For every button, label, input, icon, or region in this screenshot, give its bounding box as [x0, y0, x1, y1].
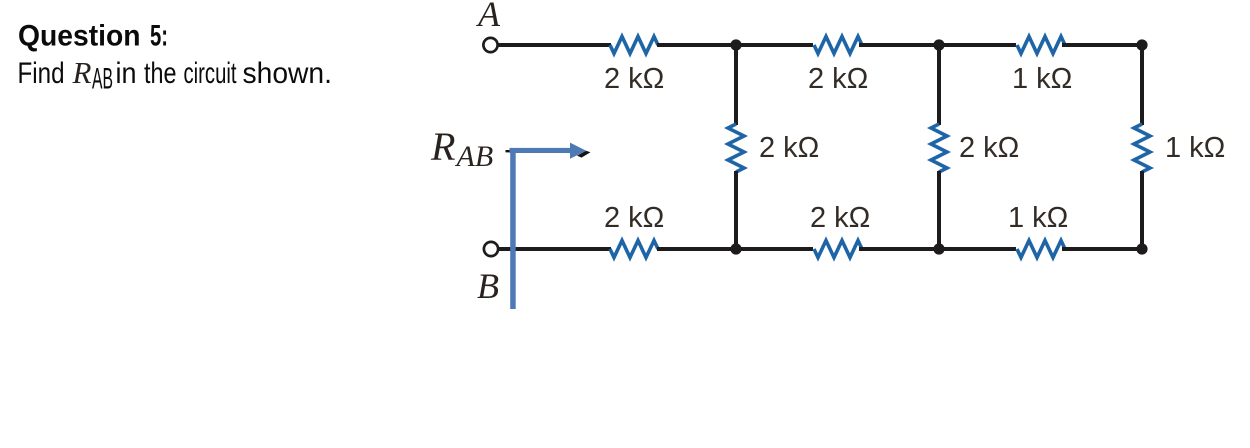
- wire: vertical branch 2 lower: [937, 171, 941, 249]
- arrow shadow line: [506, 150, 576, 152]
- svg-text:Question: Question: [18, 19, 141, 52]
- wire: top rail node2 span: [859, 43, 1016, 47]
- terminal A: [483, 38, 497, 52]
- prompt text "Find RAB in the circuit shown.": [18, 55, 333, 95]
- svg-text:2 kΩ: 2 kΩ: [959, 132, 1019, 164]
- junction node bottom-right corner: [1136, 243, 1147, 254]
- resistor 2k bottom-left: [610, 241, 658, 258]
- resistor 1k bottom-right: [1017, 241, 1065, 258]
- junction node bottom-2: [933, 243, 944, 254]
- wire: vertical branch 3 upper: [1140, 45, 1144, 125]
- svg-text:in: in: [116, 57, 137, 90]
- wire: vertical branch 2 upper: [937, 45, 941, 125]
- svg-text:2 kΩ: 2 kΩ: [759, 132, 819, 164]
- svg-text:1 kΩ: 1 kΩ: [1165, 132, 1225, 164]
- resistor 2k top-left: [610, 37, 658, 54]
- resistor 2k top-middle: [814, 37, 862, 54]
- svg-text:1 kΩ: 1 kΩ: [1012, 63, 1072, 95]
- wire: top rail from A to R1: [498, 43, 611, 47]
- svg-text:2 kΩ: 2 kΩ: [604, 63, 664, 95]
- junction node bottom-1: [730, 243, 741, 254]
- RAB arrow shaft: [510, 148, 572, 153]
- resistor 1k top-right: [1017, 37, 1065, 54]
- wire: top rail R1 to node1: [657, 43, 813, 47]
- wire: top rail to top-right corner: [1062, 43, 1142, 47]
- svg-text:2 kΩ: 2 kΩ: [810, 202, 870, 234]
- svg-text:circuit: circuit: [184, 57, 237, 90]
- wire: bottom rail R4 to node: [657, 247, 813, 251]
- svg-text:2 kΩ: 2 kΩ: [604, 202, 664, 234]
- svg-text:B: B: [477, 266, 499, 306]
- label RAB: [430, 124, 493, 173]
- wire: bottom rail span: [859, 247, 1016, 251]
- wire: vertical branch 1 upper: [734, 45, 738, 125]
- terminal B: [484, 242, 498, 256]
- svg-text:R: R: [72, 55, 92, 90]
- wire: vertical branch 3 lower: [1140, 171, 1144, 249]
- svg-text:AB: AB: [455, 140, 494, 173]
- junction node top-2: [933, 39, 944, 50]
- svg-text:Find: Find: [18, 57, 65, 90]
- svg-text:shown.: shown.: [243, 57, 333, 90]
- svg-text:the: the: [144, 57, 177, 90]
- svg-text:5:: 5:: [150, 19, 168, 52]
- svg-text:AB: AB: [92, 62, 113, 95]
- wire: bottom rail from B to R4: [498, 247, 611, 251]
- junction node top-1: [730, 39, 741, 50]
- resistor 2k vertical-1: [728, 124, 744, 172]
- resistor 2k bottom-middle: [814, 241, 862, 258]
- wire: bottom rail to bottom-right corner: [1062, 247, 1142, 251]
- RAB arrow head: [570, 143, 586, 159]
- svg-text:1 kΩ: 1 kΩ: [1008, 202, 1068, 234]
- resistor 2k vertical-2: [931, 124, 947, 172]
- arrow shadow head: [577, 151, 591, 158]
- RAB arrow vertical bar: [510, 148, 516, 309]
- svg-text:2 kΩ: 2 kΩ: [808, 63, 868, 95]
- resistor 1k vertical-3: [1134, 124, 1150, 172]
- junction node top-right corner: [1136, 39, 1147, 50]
- svg-text:A: A: [476, 0, 501, 34]
- wire: vertical branch 1 lower: [734, 171, 738, 249]
- svg-text:R: R: [430, 124, 455, 169]
